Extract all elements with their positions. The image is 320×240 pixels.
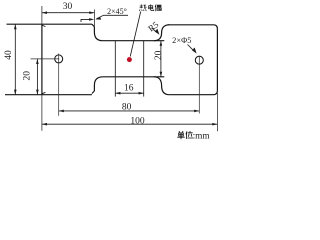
dim 20 left	[36, 59, 39, 95]
svg-text:R5: R5	[146, 19, 161, 34]
ext right edge below	[216, 93, 218, 131]
ext shoulder above	[93, 10, 95, 29]
svg-text:80: 80	[122, 103, 132, 113]
svg-text:20: 20	[154, 50, 164, 60]
bottom-right rounded corner + bottom edge of right block	[169, 91, 217, 95]
bottom-right shoulder S-curve R5	[154, 77, 170, 95]
holes	[55, 55, 204, 64]
dim 100	[42, 123, 218, 126]
dim 16	[115, 92, 143, 95]
left shoulder lower: fillet R5 + vertical	[94, 77, 103, 91]
narrow top edge (extended right for 20-dim)	[103, 40, 164, 42]
dim 40	[14, 24, 17, 95]
电	[149, 5, 154, 11]
chamfer at left shoulder bottom	[92, 91, 95, 94]
2x45 leader	[95, 15, 128, 19]
svg-text:16: 16	[124, 83, 134, 93]
svg-text::mm: :mm	[193, 132, 211, 142]
corner break tick top-left	[42, 25, 45, 27]
chamfer at left shoulder top	[92, 24, 95, 27]
ext left edge above	[41, 6, 43, 24]
svg-text:100: 100	[130, 116, 145, 126]
right edge	[216, 29, 218, 91]
right hole vertical centerline down to 80-dim	[198, 56, 200, 113]
dim 20 right (narrow width)	[160, 41, 163, 77]
热	[140, 5, 147, 11]
top-right shoulder S-curve R5	[154, 25, 170, 41]
chamfer pointer small arrow (left side)	[81, 18, 94, 22]
svg-text:2×Φ5: 2×Φ5	[172, 36, 191, 45]
svg-text:30: 30	[63, 2, 73, 12]
thermocouple leader	[130, 12, 141, 57]
dim 30	[42, 11, 95, 14]
svg-text:20: 20	[22, 71, 32, 81]
bottom edge (with 40-dim extension to the left)	[5, 94, 92, 96]
left edge	[41, 24, 43, 95]
left hole horizontal centerline	[31, 58, 60, 60]
thermocouple red dot	[127, 57, 132, 62]
dim 80	[59, 110, 200, 113]
left hole 5 dia	[55, 55, 63, 63]
ext left edge below	[41, 95, 43, 131]
偶	[155, 5, 161, 11]
left shoulder upper: vertical + fillet R5 to narrow top edge	[94, 27, 103, 41]
corner break tick bottom-left	[42, 92, 45, 94]
svg-text:2×45°: 2×45°	[107, 7, 127, 16]
right block top edge + rounded corner	[168, 25, 218, 29]
top edge (with 40-dim extension to the left)	[7, 23, 92, 25]
位	[186, 131, 193, 138]
dimension extension lines	[42, 6, 218, 131]
svg-text:40: 40	[4, 50, 14, 60]
narrow bottom edge (extended right for 20-dim)	[103, 76, 164, 78]
weld-zone marker lines (16 apart)	[115, 41, 143, 97]
label: re-dian-ou (thermocouple) hand glyphs	[140, 5, 162, 11]
specimen outline	[5, 24, 217, 95]
label: dan-wei (unit) : mm	[178, 131, 193, 138]
单	[178, 131, 185, 138]
left hole vertical centerline down to 80-dim	[58, 54, 60, 116]
right hole 5 dia	[195, 56, 203, 64]
centerlines	[31, 54, 200, 116]
